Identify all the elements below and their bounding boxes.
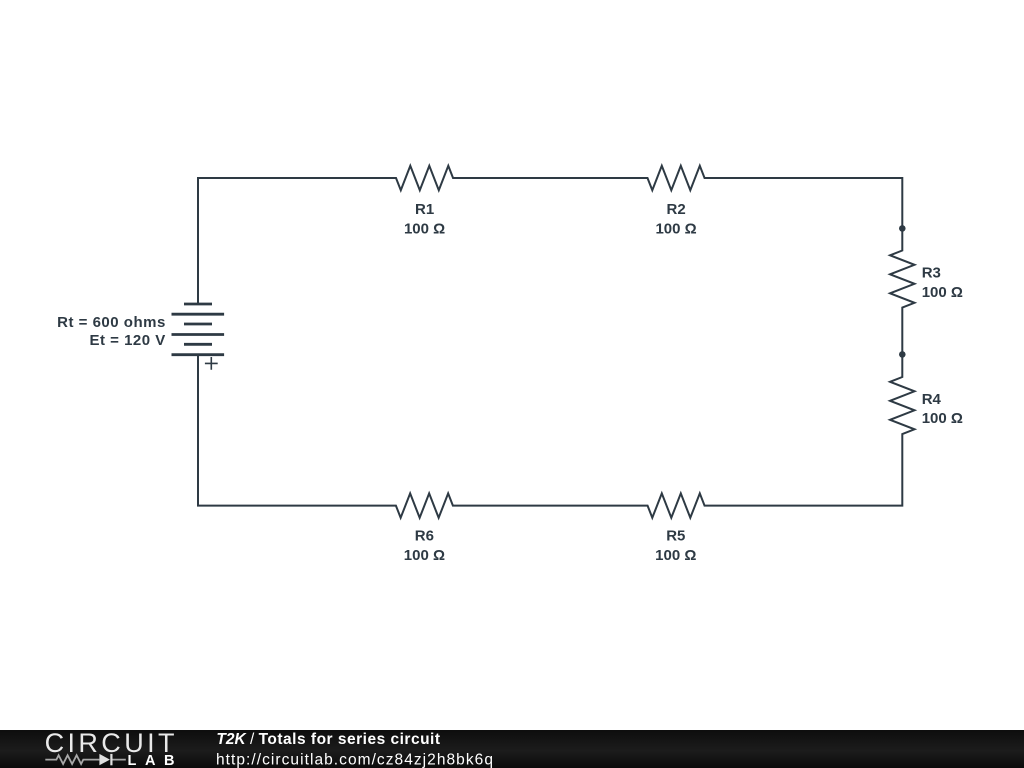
- svg-text:100 Ω: 100 Ω: [655, 547, 696, 564]
- svg-text:100 Ω: 100 Ω: [404, 547, 445, 564]
- svg-text:R2: R2: [667, 201, 686, 218]
- svg-text:R3: R3: [922, 265, 941, 282]
- svg-text:100 Ω: 100 Ω: [922, 284, 963, 301]
- svg-text:R5: R5: [666, 528, 685, 545]
- svg-text:100 Ω: 100 Ω: [655, 220, 696, 237]
- svg-text:Rt = 600 ohms: Rt = 600 ohms: [57, 314, 166, 331]
- svg-text:R4: R4: [922, 391, 942, 408]
- svg-text:http://circuitlab.com/cz84zj2h: http://circuitlab.com/cz84zj2h8bk6q: [216, 751, 494, 768]
- svg-text:100 Ω: 100 Ω: [922, 410, 963, 427]
- svg-text:R1: R1: [415, 201, 434, 218]
- svg-text:100 Ω: 100 Ω: [404, 220, 445, 237]
- svg-text:T2K / Totals for series circui: T2K / Totals for series circuit: [216, 731, 440, 748]
- svg-text:R6: R6: [415, 528, 434, 545]
- svg-text:Et = 120 V: Et = 120 V: [90, 332, 166, 349]
- svg-text:LAB: LAB: [128, 753, 184, 768]
